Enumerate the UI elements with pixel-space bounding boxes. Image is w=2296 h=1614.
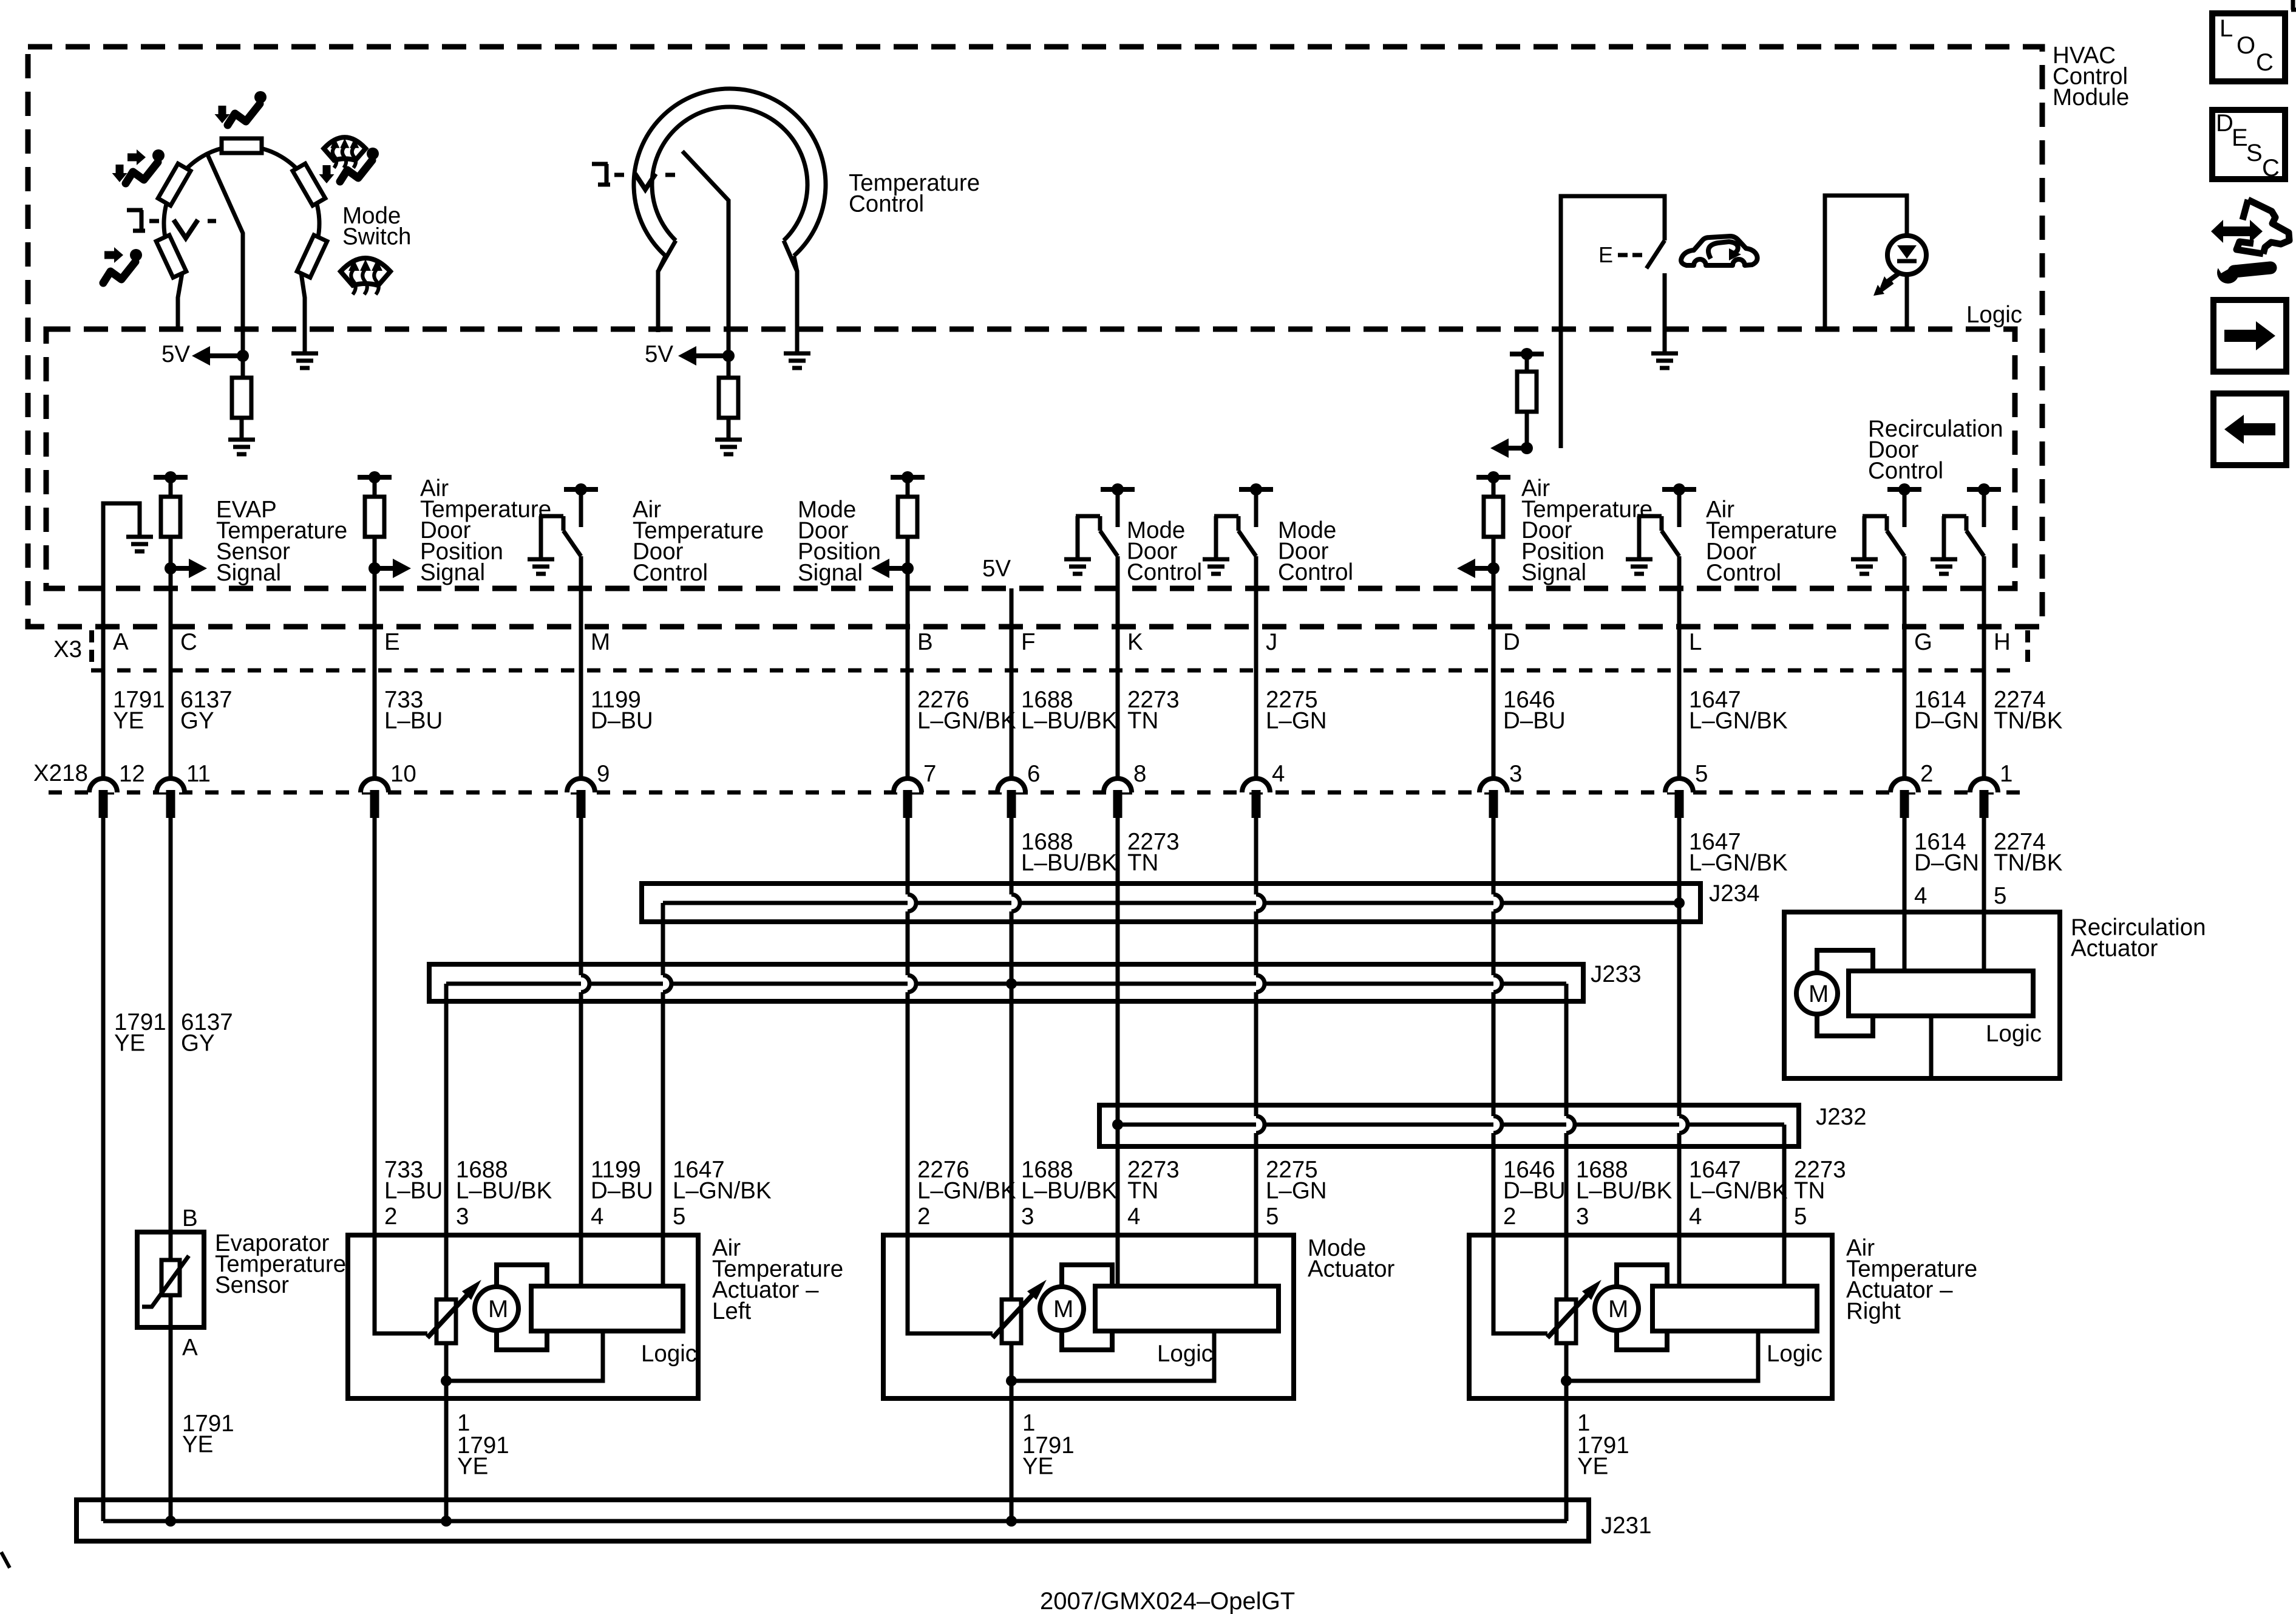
- connector test icon (connector outline): [2243, 200, 2248, 220]
- door control switch (J): [1214, 516, 1218, 559]
- svg-text:5V: 5V: [982, 556, 1011, 582]
- Air Temperature Actuator - Left box: [348, 1235, 698, 1398]
- svg-text:10: 10: [390, 761, 416, 787]
- svg-text:L–GN/BK: L–GN/BK: [1689, 1178, 1788, 1204]
- svg-text:GY: GY: [181, 1030, 215, 1057]
- Temperature Control left leg wire: [656, 270, 661, 332]
- actuator logic block: [1652, 1286, 1817, 1331]
- svg-text:L–GN/BK: L–GN/BK: [1689, 850, 1788, 876]
- svg-text:TN: TN: [1127, 708, 1158, 734]
- svg-text:Right: Right: [1846, 1298, 1901, 1324]
- svg-text:Control: Control: [1706, 560, 1781, 586]
- svg-text:TN: TN: [1794, 1178, 1825, 1204]
- pull-up resistor at x=1495: [898, 497, 917, 537]
- door control switch (L): [1637, 516, 1642, 559]
- Mode Switch coupling dashed link: [149, 219, 159, 223]
- svg-text:L–GN/BK: L–GN/BK: [917, 708, 1016, 734]
- icon defrost right: [341, 258, 390, 295]
- svg-text:D–BU: D–BU: [1503, 1178, 1566, 1204]
- power T at x=2460: [1476, 475, 1510, 480]
- actuator logic block: [531, 1286, 683, 1331]
- Evaporator Temperature Sensor box: [137, 1232, 204, 1327]
- svg-text:M: M: [1053, 1296, 1073, 1323]
- actuator logic block: [1095, 1286, 1279, 1331]
- wire C 6137 GY upper: [169, 588, 173, 792]
- svg-text:M: M: [591, 629, 610, 655]
- actuator internal junction: [441, 1375, 452, 1386]
- svg-text:D: D: [2216, 110, 2233, 137]
- svg-text:B: B: [917, 629, 933, 655]
- wire right actuator pin 1 to J231: [1564, 1343, 1569, 1521]
- right arrow: [2224, 321, 2275, 350]
- terminal X218: [894, 778, 922, 792]
- thermistor symbol: [161, 1260, 180, 1295]
- actuator motor bracket: [1617, 1265, 1667, 1350]
- svg-text:C: C: [2256, 49, 2274, 76]
- svg-text:D–GN: D–GN: [1914, 708, 1979, 734]
- svg-text:Logic: Logic: [1767, 1341, 1822, 1367]
- wire H into recirc logic: [1982, 792, 1986, 973]
- svg-text:M: M: [488, 1296, 508, 1323]
- svg-text:4: 4: [1689, 1204, 1702, 1230]
- actuator position potentiometer: [1002, 1299, 1021, 1343]
- Temperature Control right leg wire: [795, 270, 800, 353]
- Temperature Control ring right closure: [784, 240, 797, 271]
- svg-text:2: 2: [1503, 1204, 1516, 1230]
- wire C 6137 GY to sensor: [169, 792, 173, 1263]
- Temperature Control pull-down resistor: [727, 356, 731, 378]
- actuator pin2 internal wire: [1493, 1238, 1547, 1333]
- Mode Switch resistor top: [222, 138, 262, 153]
- Recirculation Actuator box: [1784, 912, 2060, 1078]
- Temperature Control right leg ground: [784, 352, 810, 356]
- svg-text:3: 3: [1021, 1204, 1034, 1230]
- svg-text:TN/BK: TN/BK: [1994, 708, 2063, 734]
- Temperature Control 5V junction: [722, 350, 735, 362]
- recirculation switch ground: [1651, 352, 1678, 356]
- connector test icon (double arrow): [2211, 220, 2263, 243]
- LED diode symbol: [1897, 245, 1917, 259]
- recirculation switch contact wire: [1663, 273, 1667, 353]
- Temperature Control 5V arrow: [696, 353, 729, 358]
- svg-text:TN: TN: [1127, 1178, 1158, 1204]
- connector X3 right bracket: [2025, 630, 2030, 668]
- svg-text:9: 9: [597, 761, 610, 787]
- svg-text:11: 11: [186, 761, 211, 787]
- svg-text:3: 3: [456, 1204, 469, 1230]
- Air Temperature Actuator - Right box: [1469, 1235, 1832, 1398]
- recirculation request arrow: [1509, 446, 1527, 451]
- terminal X218: [361, 778, 389, 792]
- svg-text:J233: J233: [1591, 961, 1642, 987]
- svg-text:H: H: [1994, 629, 2011, 655]
- svg-text:J234: J234: [1709, 880, 1760, 907]
- svg-text:X218: X218: [33, 760, 88, 786]
- svg-text:Signal: Signal: [1521, 559, 1586, 585]
- svg-text:12: 12: [119, 761, 145, 787]
- terminal X218: [89, 778, 117, 792]
- terminal X218: [1970, 778, 1998, 792]
- svg-text:F: F: [1021, 629, 1036, 655]
- wire A 1791 YE: [101, 670, 106, 1521]
- Mode Switch coupling bracket: [127, 210, 145, 231]
- EVAP sensor return ground (A): [126, 535, 153, 539]
- svg-text:D: D: [1503, 629, 1520, 655]
- actuator logic return wire: [1011, 1331, 1214, 1381]
- recirculation logic return wire: [1929, 1016, 1934, 1076]
- Mode Switch right leg ground: [291, 352, 318, 356]
- svg-text:D–BU: D–BU: [591, 708, 653, 734]
- connector X3 dotted row: [91, 669, 2022, 673]
- svg-text:D–BU: D–BU: [591, 1178, 653, 1204]
- svg-text:YE: YE: [1022, 1454, 1053, 1480]
- signal arrow at x=1495: [889, 566, 908, 571]
- svg-text:6: 6: [1027, 761, 1040, 787]
- splice J234 block: [642, 884, 1700, 922]
- svg-text:5: 5: [1794, 1204, 1807, 1230]
- HVAC Control Module dashed box: [28, 47, 2042, 627]
- svg-text:5: 5: [673, 1204, 685, 1230]
- Temperature Control wiper wire: [682, 151, 729, 353]
- wire K 2273 TN: [1116, 556, 1120, 792]
- recirculation switch loop wire: [1561, 196, 1665, 448]
- connector X218 dotted row: [49, 791, 2022, 795]
- svg-text:Logic: Logic: [1966, 302, 2022, 328]
- svg-text:L–BU/BK: L–BU/BK: [1021, 1178, 1118, 1204]
- svg-text:YE: YE: [182, 1432, 213, 1458]
- recirculation actuator motor M: [1796, 973, 1838, 1014]
- svg-text:C: C: [180, 629, 197, 655]
- recirculation actuator logic block: [1849, 971, 2033, 1016]
- right arrow icon box: [2213, 300, 2286, 372]
- Logic dashed box: [46, 329, 2015, 588]
- LED indicator loop wire: [1825, 196, 1907, 329]
- svg-text:Logic: Logic: [1157, 1341, 1213, 1367]
- splice J232 bus wire: [1118, 1123, 1784, 1127]
- svg-text:4: 4: [1127, 1204, 1140, 1230]
- svg-text:E: E: [384, 629, 400, 655]
- recirculation request power T: [1510, 352, 1544, 356]
- potentiometer wiper arrow: [427, 1294, 468, 1338]
- junction J231 left actuator: [441, 1516, 452, 1527]
- signal arrow at x=617: [375, 566, 393, 571]
- EVAP sensor return wire jog (A): [103, 503, 140, 670]
- svg-text:3: 3: [1576, 1204, 1589, 1230]
- wire G 1614 D-GN: [1903, 556, 1907, 792]
- wire G into recirc logic: [1903, 792, 1907, 973]
- 5V feed wire (F): [1010, 588, 1014, 670]
- actuator position potentiometer: [1557, 1299, 1576, 1343]
- connector test icon (wrench): [2217, 262, 2239, 284]
- svg-text:E: E: [1598, 242, 1613, 267]
- svg-text:5: 5: [1994, 883, 2006, 909]
- terminal X218: [997, 778, 1025, 792]
- recirculation switch arm: [1646, 240, 1665, 268]
- svg-text:YE: YE: [114, 1030, 145, 1057]
- icon vent face left: [104, 251, 114, 259]
- svg-text:D–GN: D–GN: [1914, 850, 1979, 876]
- actuator motor M: [1040, 1287, 1084, 1330]
- Mode Switch resistor upper-left: [158, 163, 191, 205]
- svg-text:2: 2: [917, 1204, 930, 1230]
- svg-text:L–GN: L–GN: [1266, 708, 1327, 734]
- wire E 733 L-BU: [373, 588, 377, 792]
- svg-text:5V: 5V: [161, 341, 190, 367]
- LOC icon box: [2212, 13, 2285, 81]
- svg-text:E: E: [2232, 124, 2248, 151]
- door control switch (M): [539, 516, 543, 559]
- wire M 1199 D-BU: [579, 556, 583, 792]
- recirculation switch dashed link: [1618, 253, 1628, 257]
- svg-text:L–BU/BK: L–BU/BK: [1576, 1178, 1673, 1204]
- power T at x=1495: [891, 475, 925, 480]
- splice J231 bus wire: [103, 1519, 1567, 1524]
- wire H 2274 TN/BK: [1982, 556, 1986, 792]
- icon defrost-floor upper-right: [324, 137, 365, 168]
- svg-text:J231: J231: [1601, 1513, 1652, 1539]
- door control switch (H): [1942, 516, 1946, 559]
- svg-text:Control: Control: [633, 560, 708, 586]
- Temperature Control coupling dashed link: [614, 173, 624, 177]
- Mode Switch arc: [164, 146, 319, 273]
- svg-text:Control: Control: [1127, 559, 1202, 585]
- recirculation request resistor: [1525, 354, 1529, 372]
- junction J231 sensor: [165, 1516, 176, 1527]
- terminal X218: [1890, 778, 1918, 792]
- wire sensor to J231 1791 YE: [169, 1292, 173, 1521]
- LED wire to logic: [1905, 274, 1909, 329]
- svg-text:7: 7: [923, 761, 936, 787]
- actuator motor bracket: [1062, 1265, 1112, 1350]
- svg-text:M: M: [1608, 1296, 1628, 1323]
- actuator internal junction: [1006, 1375, 1017, 1386]
- LED emission arrows: [1886, 273, 1899, 283]
- power T at x=281: [154, 475, 188, 480]
- svg-text:Signal: Signal: [798, 560, 863, 586]
- svg-text:A: A: [182, 1335, 198, 1361]
- actuator pin2 internal wire: [375, 1238, 427, 1333]
- svg-text:C: C: [2262, 155, 2280, 182]
- Temperature Control ring left closure: [658, 240, 676, 271]
- actuator logic return wire: [1566, 1331, 1758, 1381]
- Mode Switch wiper wire: [208, 155, 243, 353]
- svg-text:L–GN/BK: L–GN/BK: [917, 1178, 1016, 1204]
- signal junction at x=1495: [902, 562, 914, 574]
- Mode Switch 5V junction: [237, 350, 249, 362]
- splice J233 block: [429, 964, 1583, 1001]
- svg-text:2007/GMX024–OpelGT: 2007/GMX024–OpelGT: [1040, 1588, 1295, 1614]
- door control switch (G): [1863, 516, 1867, 559]
- recirculation request junction: [1521, 442, 1533, 454]
- svg-text:K: K: [1127, 629, 1143, 655]
- signal junction at x=617: [369, 562, 381, 574]
- svg-text:Actuator: Actuator: [1308, 1256, 1395, 1282]
- svg-text:2: 2: [384, 1204, 397, 1230]
- Mode Switch resistor lower-left: [156, 235, 186, 278]
- junction J233-F: [1006, 978, 1017, 989]
- signal junction at x=281: [165, 562, 177, 574]
- svg-text:4: 4: [1914, 883, 1927, 909]
- svg-text:Actuator: Actuator: [2071, 936, 2158, 962]
- Mode Switch wiper pull-down resistor: [241, 356, 245, 378]
- terminal X218: [1479, 778, 1507, 792]
- svg-text:Left: Left: [712, 1298, 752, 1324]
- svg-text:J: J: [1266, 629, 1277, 655]
- wire L 1647 L-GN/BK: [1677, 556, 1682, 792]
- Mode Switch coupling V mark: [174, 220, 198, 238]
- left arrow icon box: [2213, 393, 2286, 465]
- splice J231 block: [76, 1500, 1589, 1541]
- Temperature Control coupling V mark: [635, 174, 656, 189]
- actuator logic return wire: [446, 1331, 603, 1381]
- splice J234 bus wire: [663, 901, 1679, 905]
- terminal X218: [157, 778, 185, 792]
- svg-text:L: L: [2220, 15, 2233, 42]
- terminal X218: [567, 778, 595, 792]
- svg-text:2: 2: [1920, 761, 1933, 787]
- wire J 2275 L-GN: [1254, 556, 1258, 792]
- Temperature Control resistance ring: [634, 89, 826, 256]
- actuator motor M: [1595, 1287, 1639, 1330]
- svg-text:Logic: Logic: [641, 1341, 697, 1367]
- svg-text:4: 4: [1272, 761, 1285, 787]
- svg-text:Switch: Switch: [342, 224, 411, 250]
- svg-text:1: 1: [2000, 761, 2012, 787]
- svg-text:D–BU: D–BU: [1503, 708, 1566, 734]
- wire J233 to right actuator pin 3: [1564, 984, 1569, 1116]
- svg-text:L–BU: L–BU: [384, 708, 443, 734]
- Temperature Control wiper ground: [727, 418, 731, 440]
- svg-text:5: 5: [1695, 761, 1708, 787]
- svg-text:8: 8: [1133, 761, 1146, 787]
- connector X3 left bracket: [89, 630, 94, 668]
- Mode Switch left leg wire: [178, 273, 182, 329]
- svg-text:YE: YE: [457, 1454, 488, 1480]
- Mode Switch right leg wire: [301, 273, 305, 353]
- wire B 2276 L-GN/BK: [906, 588, 910, 792]
- svg-text:Control: Control: [849, 191, 924, 217]
- wire J234 to left actuator pin 5: [661, 903, 665, 975]
- DESC icon box: [2212, 110, 2285, 179]
- actuator pin2 internal wire: [908, 1238, 993, 1333]
- svg-text:L: L: [1689, 629, 1702, 655]
- svg-text:X3: X3: [53, 636, 82, 662]
- Mode Actuator box: [883, 1235, 1294, 1398]
- svg-text:YE: YE: [1577, 1454, 1608, 1480]
- splice J233 bus wire: [446, 982, 1566, 986]
- svg-text:Control: Control: [1868, 458, 1943, 484]
- Mode Switch 5V arrow: [210, 353, 243, 358]
- svg-text:M: M: [1809, 981, 1829, 1007]
- wire F pin1 to J231: [1010, 1343, 1014, 1521]
- svg-text:A: A: [113, 629, 129, 655]
- wire J233 to left actuator pin 3: [444, 984, 449, 1299]
- svg-text:L–GN/BK: L–GN/BK: [1689, 708, 1788, 734]
- svg-text:3: 3: [1509, 761, 1522, 787]
- page edge mark: [1, 1552, 10, 1568]
- junction J234-L: [1674, 897, 1685, 908]
- wire L to right actuator pin 4: [1677, 903, 1682, 1116]
- wire J232 to right actuator pin 5: [1782, 1125, 1787, 1289]
- potentiometer wiper arrow: [993, 1294, 1033, 1338]
- recirculation request wire: [1525, 412, 1529, 448]
- Mode Switch wiper ground: [240, 418, 244, 440]
- pull-up resistor at x=2460: [1484, 497, 1503, 537]
- signal arrow at x=281: [171, 566, 189, 571]
- terminal X218: [1104, 778, 1132, 792]
- splice J232 block: [1099, 1105, 1799, 1146]
- svg-text:B: B: [182, 1205, 198, 1231]
- icon vent-floor upper-left: [127, 154, 137, 162]
- svg-text:S: S: [2246, 140, 2263, 166]
- svg-text:4: 4: [591, 1204, 603, 1230]
- junction J231 mode actuator: [1006, 1516, 1017, 1527]
- signal arrow at x=2460: [1475, 566, 1493, 571]
- svg-text:L–GN: L–GN: [1266, 1178, 1327, 1204]
- svg-text:TN/BK: TN/BK: [1994, 850, 2063, 876]
- Mode Switch resistor lower-right: [297, 235, 327, 278]
- power T at x=617: [358, 475, 392, 480]
- svg-text:5V: 5V: [645, 341, 673, 367]
- svg-text:O: O: [2237, 32, 2255, 59]
- svg-text:GY: GY: [180, 708, 214, 734]
- wire F 1688 L-BU/BK: [1010, 670, 1014, 792]
- svg-text:J232: J232: [1816, 1104, 1867, 1130]
- svg-text:Module: Module: [2053, 84, 2129, 111]
- actuator motor bracket: [497, 1265, 547, 1350]
- door control switch (K): [1076, 516, 1080, 559]
- actuator position potentiometer: [436, 1299, 456, 1343]
- svg-text:TN: TN: [1127, 850, 1158, 876]
- junction J232-K: [1112, 1119, 1123, 1130]
- wire D 1646 D-BU: [1492, 588, 1496, 792]
- car recirculation icon: [1681, 236, 1758, 265]
- Temperature Control coupling bracket: [592, 164, 610, 185]
- pull-up resistor at x=617: [365, 497, 384, 537]
- terminal X218: [1242, 778, 1270, 792]
- icon floor top: [219, 106, 226, 114]
- svg-text:Signal: Signal: [420, 559, 485, 585]
- actuator internal junction: [1561, 1375, 1572, 1386]
- potentiometer wiper arrow: [1547, 1294, 1588, 1338]
- page corner mark: [2291, 0, 2296, 10]
- svg-text:L–BU/BK: L–BU/BK: [456, 1178, 552, 1204]
- svg-text:L–BU: L–BU: [384, 1178, 443, 1204]
- signal junction at x=2460: [1487, 562, 1500, 574]
- LED circle: [1887, 236, 1926, 274]
- wire left actuator pin 1 to J231: [444, 1343, 449, 1521]
- svg-text:Sensor: Sensor: [215, 1272, 289, 1298]
- pull-up resistor at x=281: [161, 497, 180, 537]
- svg-text:G: G: [1914, 629, 1932, 655]
- svg-text:L–BU/BK: L–BU/BK: [1021, 850, 1118, 876]
- svg-text:YE: YE: [113, 708, 144, 734]
- svg-text:Signal: Signal: [216, 560, 281, 586]
- actuator motor M: [475, 1287, 518, 1330]
- terminal X218: [1665, 778, 1693, 792]
- svg-text:Control: Control: [1278, 559, 1353, 585]
- svg-text:Logic: Logic: [1986, 1021, 2042, 1047]
- svg-text:5: 5: [1266, 1204, 1279, 1230]
- svg-text:L–BU/BK: L–BU/BK: [1021, 708, 1118, 734]
- Mode Switch resistor upper-right: [293, 163, 325, 205]
- svg-text:L–GN/BK: L–GN/BK: [673, 1178, 772, 1204]
- recirculation actuator motor bracket: [1817, 950, 1873, 1036]
